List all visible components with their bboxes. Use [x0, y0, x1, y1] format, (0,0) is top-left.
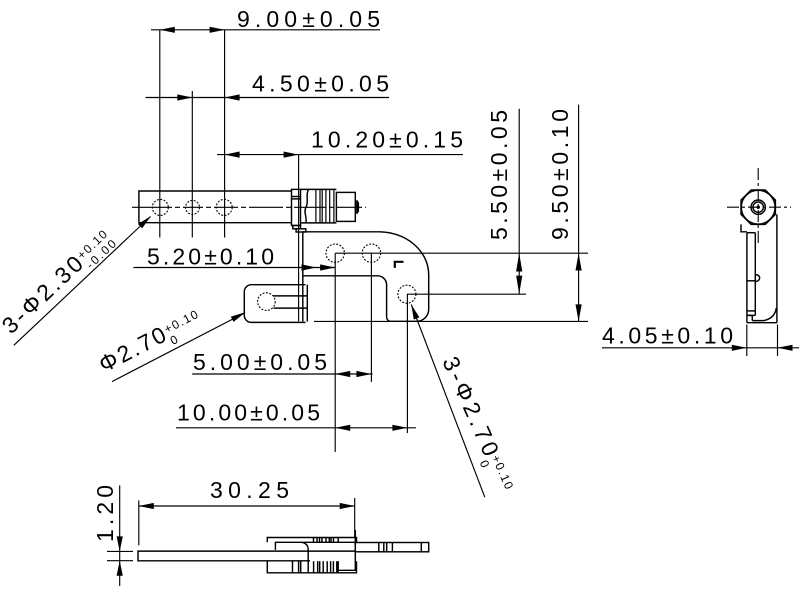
- top strip rings: [313, 538, 315, 543]
- SECTION: bottom view: [138, 530, 429, 573]
- pin bore outer: [751, 200, 765, 214]
- ext line plate hole2 vertical: [370, 253, 372, 382]
- dim 4.50 arrows (outside): [177, 94, 239, 100]
- dim 5.00 arrows: [335, 371, 371, 377]
- bottom-left step: [747, 315, 752, 320]
- dim 5.20 line: [133, 267, 335, 269]
- bottom strip inner line: [338, 569, 356, 571]
- plate hole 1: [326, 244, 344, 262]
- dim 1.20 line: [119, 485, 121, 586]
- dim 5.20 arrows: [302, 264, 336, 270]
- tab slot lines: [274, 295, 308, 297]
- svg-text:5.50±0.05: 5.50±0.05: [486, 110, 512, 240]
- SECTION: plate view: [244, 232, 428, 323]
- top strip: [267, 538, 356, 543]
- ext line plate holes horizontal: [335, 252, 588, 254]
- dim 5.50 line: [518, 109, 520, 294]
- dim 5.00 line: [192, 373, 372, 375]
- knurl rings: [315, 189, 317, 223]
- svg-text:9.00±0.05: 9.00±0.05: [237, 6, 380, 32]
- steps below flange: [293, 226, 301, 229]
- svg-text:9.50±0.10: 9.50±0.10: [547, 109, 573, 240]
- ext line side right vertical: [777, 325, 779, 357]
- SECTION: top view: [132, 189, 366, 232]
- ext line 30.25 right vertical: [354, 498, 356, 537]
- bar body outline: [139, 191, 292, 223]
- assembly right edge: [354, 530, 356, 571]
- dim 4.05 arrows (outside): [732, 345, 793, 351]
- ext line plate hole1 vertical: [334, 253, 336, 452]
- plate inner notch: [303, 276, 391, 322]
- ext line plate bottom horizontal: [314, 320, 588, 322]
- dim 10.00 arrows: [335, 425, 407, 431]
- centerline (bar axis): [132, 206, 366, 208]
- dim 30.25 arrows: [139, 503, 355, 509]
- leaf strip inner edge: [754, 233, 756, 316]
- dim 9.50 arrows: [576, 253, 582, 321]
- knob to body step: [741, 224, 747, 231]
- svg-text:4.50±0.05: 4.50±0.05: [252, 71, 389, 97]
- knob circle: [741, 190, 775, 224]
- pin center dot: [757, 206, 760, 209]
- dim 4.50 line: [146, 97, 389, 99]
- ext line 30.25 left vertical: [138, 500, 140, 545]
- svg-text:3-Φ2.70: 3-Φ2.70: [437, 352, 504, 459]
- tab-plate boundary: [306, 285, 308, 322]
- bottom strip rings: [292, 561, 294, 573]
- side centerline horizontal: [727, 206, 791, 208]
- dim 10.20 line: [217, 154, 463, 156]
- pin top line: [301, 188, 337, 190]
- leader phi2.70: [112, 313, 245, 382]
- plate hole 2: [362, 244, 380, 262]
- ext dashes 1.20: [107, 550, 133, 552]
- leader 3-phi2.70: [411, 305, 485, 498]
- dim 4.05 line: [602, 347, 799, 349]
- bottom strip: [267, 561, 356, 573]
- upper leaf right bar: [355, 543, 428, 552]
- pin tip: [356, 200, 359, 214]
- strip dividers: [747, 280, 755, 282]
- pin bottom line: [301, 222, 337, 224]
- plate hole 3: [398, 285, 416, 303]
- strip top: [747, 232, 755, 234]
- body right edge: [776, 214, 778, 322]
- dim 1.20 arrows (outside): [117, 536, 123, 575]
- ext line hole2 vertical: [191, 91, 193, 238]
- svg-text:10.00±0.05: 10.00±0.05: [177, 400, 320, 426]
- latch bump: [755, 275, 759, 282]
- dim 9.00 line: [151, 29, 380, 31]
- ext line side left vertical: [746, 325, 748, 357]
- plate top edge and corner arc: [303, 232, 429, 321]
- side centerline vertical: [757, 168, 759, 246]
- dim 5.50 arrows: [516, 253, 522, 294]
- ext line flange vertical: [298, 155, 300, 322]
- lower leaf bar: [138, 551, 355, 561]
- pivot corner arc: [301, 542, 308, 561]
- upper leaf left segment: [275, 542, 355, 550]
- knob octagon: [741, 190, 775, 224]
- svg-text:1.20: 1.20: [92, 485, 118, 542]
- tab outline: [244, 285, 305, 323]
- dim 10.00 line: [176, 427, 416, 429]
- svg-text:4.05±0.10: 4.05±0.10: [602, 323, 733, 349]
- ext line hole3 vertical: [224, 30, 226, 238]
- svg-text:5.00±0.05: 5.00±0.05: [193, 349, 327, 375]
- hole 1 (bar): [152, 199, 168, 215]
- plate left edge: [302, 232, 304, 321]
- dim 30.25 line: [139, 505, 355, 507]
- pin bore inner: [753, 202, 763, 212]
- break squiggle: [305, 190, 308, 223]
- dim 10.20 arrows: [225, 152, 299, 158]
- SECTION: side view: [727, 168, 791, 323]
- tab slot hole: [258, 293, 276, 311]
- svg-text:10.20±0.15: 10.20±0.15: [311, 127, 463, 153]
- ext line plate hole3 vertical: [406, 294, 408, 433]
- hole 3 (bar): [216, 199, 232, 215]
- ext line hole1 vertical: [159, 30, 161, 238]
- svg-text:5.20±0.10: 5.20±0.10: [147, 244, 274, 270]
- end cap: [336, 192, 355, 221]
- upper leaf dividers: [378, 543, 380, 552]
- ext line plate hole3 horizontal: [407, 293, 526, 295]
- bottom inner curve: [752, 308, 776, 321]
- dim 9.00 arrows: [160, 27, 225, 33]
- gamma bend mark: [395, 262, 404, 268]
- svg-text:30.25: 30.25: [210, 477, 289, 503]
- hole 2 (bar): [186, 200, 200, 214]
- flange: [292, 189, 301, 225]
- dim 9.50 line: [578, 105, 580, 322]
- body left edge: [746, 233, 748, 323]
- svg-text:3-Φ2.30: 3-Φ2.30: [0, 250, 88, 338]
- body bottom edge: [747, 322, 777, 324]
- svg-text:Φ2.70: Φ2.70: [94, 321, 170, 377]
- leader 3-phi2.30: [14, 217, 151, 346]
